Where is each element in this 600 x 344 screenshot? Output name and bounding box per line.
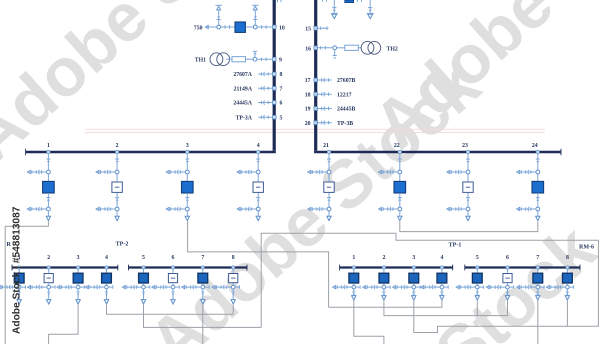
- svg-text:1: 1: [47, 143, 50, 149]
- svg-text:2: 2: [47, 255, 50, 261]
- feeder 22 breaker: [394, 174, 406, 207]
- svg-text:4: 4: [440, 255, 443, 261]
- feeder 1 tap: [46, 143, 50, 170]
- feeder 23 tap: [462, 143, 470, 170]
- bus TP-2 section 1: [12, 266, 118, 268]
- feeder 24 outgoing arrow: [536, 211, 540, 221]
- TP-1 feeder 6 disconnect: [486, 285, 514, 289]
- svg-text:22: 22: [394, 143, 400, 149]
- cable feeder 3 ring: [188, 221, 329, 307]
- bus B vertical: [314, 0, 317, 151]
- feeder 3 outgoing arrow: [185, 211, 189, 221]
- svg-text:1: 1: [352, 255, 355, 261]
- TP-2 feeder 2 breaker: [44, 274, 53, 286]
- feeder 4 disconnect 2: [237, 207, 260, 211]
- TP-1 feeder 2 outgoing arrow: [382, 289, 386, 300]
- wire TH1 to bus: [246, 57, 275, 61]
- svg-text:4: 4: [105, 255, 108, 261]
- TP-2 feeder 6 disconnect: [152, 285, 180, 289]
- cable TP-1 ring f1 f4: [329, 301, 442, 308]
- svg-text:TP-3B: TP-3B: [337, 121, 353, 127]
- TP-2 feeder 6 outgoing arrow: [171, 289, 175, 304]
- feeder 23 outgoing arrow: [466, 211, 470, 221]
- TP-2 feeder 5 breaker: [139, 273, 149, 285]
- feeder 23 disconnect 1: [447, 170, 470, 174]
- TP-2 feeder 3 breaker: [73, 273, 83, 285]
- svg-text:5: 5: [476, 255, 479, 261]
- TP-2 feeder 8 tap: [232, 255, 235, 273]
- branch 27607B: [305, 78, 356, 84]
- cable TP-1 f1 tail: [354, 307, 384, 344]
- svg-text:Adobe Stock | #548813087: Adobe Stock | #548813087: [12, 206, 23, 334]
- TP-2 feeder 3 disconnect: [57, 285, 85, 289]
- node 9: [272, 57, 282, 63]
- TP-2 feeder 5 tap: [142, 255, 145, 273]
- svg-text:RM-6: RM-6: [579, 244, 594, 250]
- svg-text:18: 18: [305, 92, 311, 98]
- feeder 2 disconnect 1: [96, 170, 119, 174]
- bus TP-1 section 2: [465, 266, 580, 268]
- svg-text:27607A: 27607A: [233, 72, 252, 78]
- cable feeder 1 to left section: [5, 221, 48, 344]
- svg-text:24445A: 24445A: [233, 101, 252, 107]
- TP-2 feeder 7 disconnect: [181, 285, 209, 289]
- TP-1 feeder 1 outgoing arrow: [352, 289, 356, 300]
- feeder 3 disconnect 1: [166, 170, 189, 174]
- svg-text:3: 3: [412, 255, 415, 261]
- feeder 2 tap: [115, 143, 119, 170]
- ground switch above 750 right: [252, 5, 258, 25]
- TP-1 feeder 4 outgoing arrow: [440, 289, 444, 300]
- cable TP-2 f4 to f8: [107, 305, 234, 315]
- ground stub below 16 node: [333, 50, 337, 58]
- svg-text:24: 24: [532, 143, 538, 149]
- TP-1 feeder 8 tap: [566, 255, 569, 273]
- TP-2 feeder 5 disconnect: [122, 285, 150, 289]
- TP-2 feeder 1 tap: [18, 255, 21, 273]
- TP-1 feeder 3 tap: [412, 255, 415, 273]
- TP-2 feeder 6 tap: [171, 255, 174, 273]
- feeder 4 disconnect 1: [237, 170, 260, 174]
- branch 27607A: [233, 72, 282, 78]
- branch TP-3A: [236, 115, 283, 121]
- TP-1 feeder 6 breaker: [503, 274, 512, 286]
- svg-text:20: 20: [305, 121, 311, 127]
- svg-text:17: 17: [305, 78, 311, 84]
- TP-1 feeder 1 tap: [352, 255, 355, 273]
- feeder 22 tap: [394, 143, 402, 170]
- feeder 3 breaker: [182, 174, 194, 207]
- wire 750 right: [246, 25, 275, 29]
- svg-text:TP-2: TP-2: [116, 241, 129, 247]
- feeder 1 disconnect 2: [27, 207, 50, 211]
- breaker Q10: [235, 22, 245, 32]
- TP-1 feeder 3 outgoing arrow: [412, 289, 416, 300]
- feeder 3 disconnect 2: [166, 207, 189, 211]
- cable TP-1 f2 f5 f6: [384, 301, 508, 316]
- breaker top cut: [278, 0, 362, 3]
- feeder 3 tap: [185, 143, 189, 170]
- svg-text:2: 2: [116, 143, 119, 149]
- feeder 1 outgoing arrow: [46, 211, 50, 221]
- feeder 1 breaker: [43, 174, 55, 207]
- bus TP-2 section 2: [129, 266, 248, 268]
- TP-2 feeder 6 breaker: [168, 274, 177, 286]
- TP-2 feeder 4 tap: [105, 255, 108, 273]
- TP-1 feeder 8 breaker: [563, 273, 573, 285]
- svg-text:3: 3: [77, 255, 80, 261]
- TP-1 feeder 5 disconnect: [456, 285, 484, 289]
- TP-1 feeder 6 outgoing arrow: [505, 289, 509, 300]
- cable TP-1 f8 stub: [566, 301, 568, 327]
- TP-1 feeder 2 tap: [382, 255, 385, 273]
- ground switch above 750 left: [216, 5, 222, 25]
- TP-2 feeder 3 tap: [77, 255, 80, 273]
- TP-1 feeder 5 tap: [476, 255, 479, 273]
- ground stub above TH1 node: [253, 51, 257, 57]
- feeder 1 disconnect 1: [27, 170, 50, 174]
- TP-2 feeder 8 disconnect: [212, 285, 240, 289]
- TP-2 feeder 8 outgoing arrow: [231, 289, 235, 304]
- feeder 2 disconnect 2: [96, 207, 119, 211]
- node 15: [305, 26, 328, 32]
- TP-1 feeder 5 outgoing arrow: [475, 289, 479, 300]
- TP-2 feeder 1 outgoing arrow: [17, 289, 21, 304]
- svg-text:TH1: TH1: [195, 58, 206, 64]
- svg-text:TP-3A: TP-3A: [236, 115, 253, 121]
- TP-1 feeder 1 disconnect: [332, 285, 360, 289]
- svg-text:16: 16: [305, 46, 311, 52]
- svg-text:8: 8: [280, 72, 283, 78]
- svg-text:8: 8: [566, 255, 569, 261]
- voltage boundary line lower: [85, 131, 545, 133]
- svg-text:24445B: 24445B: [337, 107, 355, 113]
- feeder 21 breaker: [324, 174, 334, 207]
- svg-text:21149A: 21149A: [234, 87, 253, 93]
- TP-1 feeder 8 outgoing arrow: [565, 289, 569, 300]
- svg-text:4: 4: [257, 143, 260, 149]
- TP-1 feeder 7 disconnect: [516, 285, 544, 289]
- feeder 24 disconnect 2: [516, 207, 539, 211]
- TP-1 feeder 4 tap: [440, 255, 443, 273]
- branch 21149A: [234, 86, 283, 92]
- svg-text:750: 750: [194, 25, 203, 31]
- branch 12217: [305, 92, 352, 98]
- cable TP-2 f3 down: [49, 305, 79, 344]
- TP-1 feeder 7 tap: [536, 255, 539, 273]
- TP-2 feeder 2 tap: [47, 255, 50, 273]
- TP-1 feeder 1 breaker: [349, 273, 359, 285]
- TP-1 feeder 2 breaker: [379, 273, 389, 285]
- TP-2 feeder 2 outgoing arrow: [47, 289, 51, 304]
- node 10: [272, 25, 284, 31]
- svg-text:10: 10: [279, 25, 285, 31]
- feeder 4 outgoing arrow: [256, 211, 260, 221]
- TP-1 feeder 3 disconnect: [392, 285, 420, 289]
- feeder 22 disconnect 2: [378, 207, 401, 211]
- svg-text:15: 15: [305, 27, 311, 33]
- TP-2 feeder 4 outgoing arrow: [104, 289, 108, 304]
- svg-text:7: 7: [280, 87, 283, 93]
- fuse TH1: [226, 57, 245, 62]
- feeder 21 disconnect 2: [308, 207, 331, 211]
- svg-text:TH2: TH2: [387, 46, 398, 52]
- feeder 21 disconnect 1: [308, 170, 331, 174]
- feeder 21 tap: [323, 143, 331, 170]
- feeder 24 disconnect 1: [516, 170, 539, 174]
- TP-2 feeder 3 outgoing arrow: [76, 289, 80, 304]
- feeder 23 disconnect 2: [447, 207, 470, 211]
- svg-text:12217: 12217: [337, 92, 352, 98]
- svg-text:8: 8: [232, 255, 235, 261]
- bus section 2 horizontal: [314, 151, 561, 154]
- cable feeder 22 to feeder 24: [400, 221, 538, 231]
- svg-text:27607B: 27607B: [337, 78, 355, 84]
- TP-2 feeder 4 disconnect: [85, 285, 113, 289]
- fuse TH2: [345, 45, 359, 50]
- TP-2 feeder 1 breaker: [14, 273, 24, 285]
- TP-2 feeder 7 outgoing arrow: [201, 289, 205, 304]
- TP-2 feeder 1 disconnect: [0, 285, 26, 289]
- branch TP-3B: [305, 121, 354, 127]
- feeder 750 incoming: [194, 25, 235, 31]
- cable TP-2 f5 ring: [144, 305, 262, 328]
- cable ring right edge: [261, 233, 598, 327]
- svg-text:TP-1: TP-1: [449, 242, 462, 248]
- feeder 4 tap: [256, 143, 260, 170]
- TP-2 feeder 5 outgoing arrow: [141, 289, 145, 304]
- node 16 wire: [305, 46, 345, 52]
- TP-1 feeder 7 breaker: [533, 273, 543, 285]
- TP-1 feeder 5 breaker: [472, 273, 482, 285]
- svg-text:5: 5: [280, 115, 283, 121]
- transformer TH1: [195, 53, 230, 66]
- svg-text:3: 3: [186, 143, 189, 149]
- bus section 1 horizontal: [26, 151, 276, 154]
- TP-1 feeder 6 tap: [506, 255, 509, 273]
- TP-2 feeder 7 breaker: [198, 273, 208, 285]
- feeder 2 outgoing arrow: [115, 211, 119, 221]
- feeder 4 breaker: [253, 174, 263, 207]
- voltage boundary line upper: [85, 128, 545, 130]
- branch 24445A: [233, 100, 282, 106]
- TP-1 feeder 3 breaker: [409, 273, 419, 285]
- feeder 2 breaker: [112, 174, 122, 207]
- feeder 22 outgoing arrow: [398, 211, 402, 221]
- TP-1 feeder 4 breaker: [437, 273, 447, 285]
- ground arrester top left: [331, 0, 338, 19]
- TP-1 feeder 7 outgoing arrow: [536, 289, 540, 300]
- cable TP-2 f7 down: [202, 305, 204, 344]
- svg-text:6: 6: [280, 101, 283, 107]
- TP-2 feeder 4 breaker: [102, 273, 112, 285]
- TP-2 feeder 2 disconnect: [27, 285, 55, 289]
- cable TP-1 f7 down: [537, 301, 539, 344]
- svg-text:6: 6: [506, 255, 509, 261]
- svg-text:7: 7: [536, 255, 539, 261]
- svg-text:23: 23: [462, 143, 468, 149]
- TP-1 feeder 4 disconnect: [421, 285, 449, 289]
- feeder 24 breaker: [532, 174, 544, 207]
- TP-1 feeder 8 disconnect: [546, 285, 574, 289]
- svg-text:9: 9: [279, 58, 282, 64]
- svg-text:2: 2: [382, 255, 385, 261]
- TP-2 feeder 8 breaker: [229, 274, 238, 286]
- branch 24445B: [305, 106, 356, 112]
- transformer TH2: [358, 41, 398, 54]
- feeder 22 disconnect 1: [378, 170, 401, 174]
- TP-1 feeder 2 disconnect: [363, 285, 391, 289]
- bus A vertical: [273, 0, 276, 151]
- feeder 23 breaker: [463, 174, 473, 207]
- feeder 24 tap: [532, 143, 540, 170]
- ground arrester top right: [367, 0, 374, 19]
- svg-text:7: 7: [201, 255, 204, 261]
- cable TP-1 f3 jog: [414, 301, 568, 333]
- bus TP-1 section 1: [340, 266, 453, 268]
- svg-text:6: 6: [172, 255, 175, 261]
- svg-text:21: 21: [323, 143, 329, 149]
- svg-text:19: 19: [305, 107, 311, 113]
- feeder 21 outgoing arrow: [327, 211, 331, 221]
- svg-text:5: 5: [142, 255, 145, 261]
- TP-2 feeder 7 tap: [201, 255, 204, 273]
